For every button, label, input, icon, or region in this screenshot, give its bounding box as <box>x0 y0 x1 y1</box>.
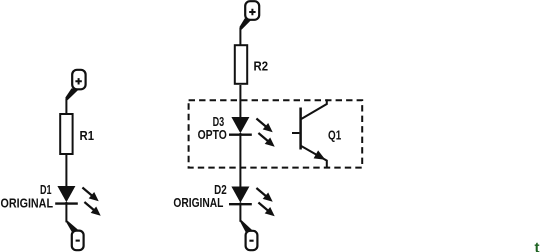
terminal - (left) <box>72 231 84 251</box>
svg-text:ORIGINAL: ORIGINAL <box>173 195 223 210</box>
wire <box>239 18 251 45</box>
terminal - (right) <box>246 231 258 250</box>
transistor Q1 <box>292 99 341 168</box>
terminal + (left) <box>72 70 85 90</box>
resistor R1 <box>60 114 94 154</box>
wire <box>65 202 78 232</box>
terminal + (right) <box>245 1 259 20</box>
svg-text:R1: R1 <box>80 128 95 143</box>
svg-text:OPTO: OPTO <box>198 127 227 142</box>
wire <box>239 203 252 233</box>
wire <box>65 154 67 187</box>
svg-text:R2: R2 <box>254 58 269 73</box>
optocoupler dashed box <box>189 100 363 167</box>
svg-text:ORIGINAL: ORIGINAL <box>1 195 54 210</box>
LED D3 <box>198 114 275 147</box>
wire <box>239 85 241 118</box>
svg-text:Q1: Q1 <box>328 128 341 143</box>
wire <box>65 88 78 114</box>
LED D1 <box>1 182 101 216</box>
resistor R2 <box>235 45 268 84</box>
svg-text:t: t <box>535 240 540 252</box>
wire <box>239 133 241 187</box>
LED D2 <box>173 182 274 216</box>
